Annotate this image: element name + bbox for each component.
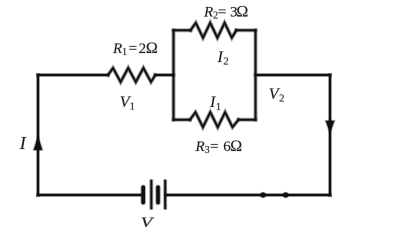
- wire bottom branch right: [239, 118, 256, 122]
- svg-text:R1=2Ω: R1=2Ω: [112, 40, 158, 58]
- wire R1 to left node of parallel box: [155, 73, 173, 77]
- svg-text:R3=6Ω: R3=6Ω: [195, 138, 243, 156]
- svg-text:V2: V2: [269, 86, 285, 105]
- current arrow (down) on right wire: [326, 121, 334, 132]
- wire parallel box right vertical: [254, 30, 258, 119]
- battery V plate short thick 1: [141, 187, 146, 202]
- svg-text:I: I: [19, 133, 27, 153]
- svg-text:R2=3Ω: R2=3Ω: [203, 3, 248, 21]
- wire bottom left segment: [38, 193, 142, 197]
- resistor R1: [108, 68, 155, 82]
- wire top-left to R1: [38, 73, 108, 77]
- resistor R2: [191, 23, 237, 38]
- current arrow I (up) on left wire: [34, 137, 42, 149]
- wire right node to right vertical: [256, 73, 331, 77]
- wire bottom branch left: [174, 118, 191, 122]
- svg-text:I2: I2: [217, 49, 229, 68]
- wire parallel box left vertical: [172, 30, 176, 119]
- node junction dot A: [260, 192, 267, 199]
- svg-text:I1: I1: [209, 94, 221, 113]
- battery V plate long thin 2: [163, 180, 167, 210]
- wire left vertical: [36, 75, 40, 195]
- battery V plate short thick 2: [155, 187, 160, 202]
- resistor R3: [190, 112, 239, 127]
- wire top branch right: [236, 28, 255, 32]
- wire bottom right segment: [166, 193, 330, 197]
- svg-text:V: V: [141, 215, 156, 231]
- wire right vertical: [328, 75, 332, 195]
- node junction dot B: [282, 192, 289, 199]
- battery V plate long thin 1: [149, 180, 153, 210]
- svg-text:V1: V1: [120, 94, 135, 113]
- wire top branch left: [174, 28, 191, 32]
